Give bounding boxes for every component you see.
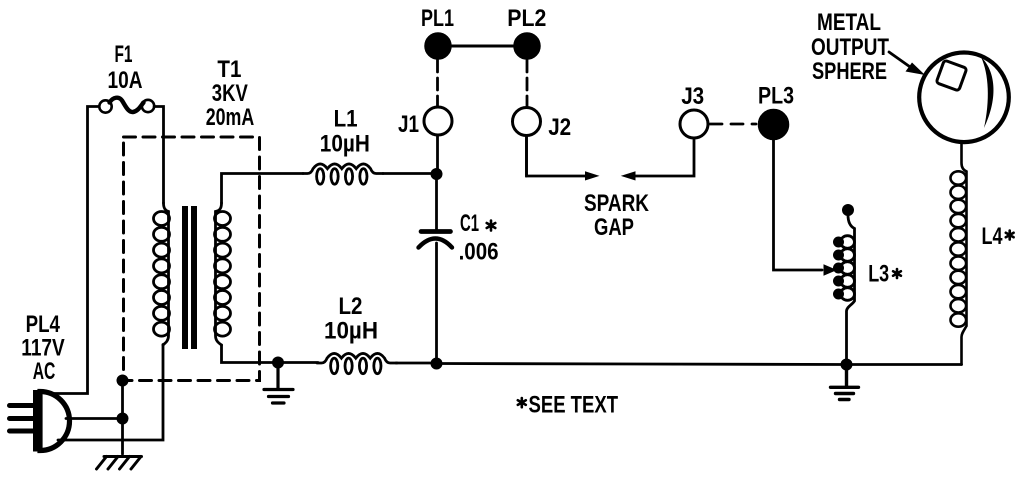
earth ground below secondary [264,363,293,404]
svg-text:10µH: 10µH [324,318,378,345]
svg-text:10µH: 10µH [320,131,370,158]
spark gap right electrode arrowhead [621,171,636,180]
wire plug middle prong to ground node [66,417,123,420]
metal output sphere [919,53,1009,143]
svg-text:L2: L2 [339,293,363,320]
svg-text:PL3: PL3 [758,83,794,110]
tap selector arrowhead [824,264,838,276]
L3 tap dots [833,237,844,300]
wire plug top to fuse F1 left [52,107,100,394]
dashed patch cord PL1 to J1 [436,60,439,106]
plug PL3 [759,110,789,140]
svg-text:AC: AC [33,358,56,385]
wire primary bottom to plug bottom [58,345,163,441]
wire L1 to node A [383,172,437,175]
plug PL1 [425,33,451,59]
jack J3 [680,110,708,138]
jack J2 [513,108,541,177]
svg-text:PL2: PL2 [507,5,546,32]
svg-text:SEE TEXT: SEE TEXT [529,391,619,418]
wire J2 to spark gap [527,136,587,177]
svg-text:J1: J1 [398,111,419,138]
svg-text:L3: L3 [868,261,889,288]
junction dot shield corner [117,375,129,387]
transformer T1 shield (dashed box) [124,137,260,381]
capacitor C1 [419,174,453,364]
label SPARK GAP [584,190,650,241]
plug PL2 [514,33,540,59]
wire ground node to L2 [278,361,318,364]
wire spark gap to J3 [634,138,694,176]
SEE TEXT asterisk star [518,398,526,407]
svg-text:SPHERE: SPHERE [812,58,887,85]
wire L2 to C1 bottom node [396,362,437,365]
junction dot L3 bottom [841,359,853,371]
node A junction dot [431,168,443,180]
wire shield corner to chassis ground [121,381,124,455]
label PL4 117V AC [21,311,64,385]
svg-text:METAL: METAL [817,9,881,36]
svg-text:J3: J3 [681,83,704,110]
svg-text:3KV: 3KV [212,80,248,107]
transformer T1 core [185,206,194,349]
L4 asterisk star [1006,231,1014,240]
dashed patch cord J3 to PL3 [710,123,756,126]
transformer T1 secondary winding [215,203,231,345]
svg-text:F1: F1 [115,41,133,68]
inductor L2 [317,353,397,373]
inductor L4 [951,143,967,365]
svg-text:20mA: 20mA [206,104,255,131]
svg-text:L1: L1 [334,106,358,133]
earth ground below L3 [831,365,859,400]
fuse F1 [99,98,154,113]
svg-text:L4: L4 [982,223,1003,250]
C1 asterisk star [487,221,496,231]
bottom bus wire [437,364,962,365]
spark gap left electrode arrowhead [585,171,600,180]
svg-text:PL1: PL1 [421,5,454,32]
wire PL1 to PL2 [452,45,515,48]
wire secondary top to L1 [222,174,304,204]
jack J1 [424,107,452,174]
svg-text:.006: .006 [459,239,499,266]
label L2 10uH [324,293,378,345]
wire fuse F1 right to transformer primary top [154,107,163,204]
svg-text:10A: 10A [108,67,143,94]
wire secondary bottom to ground node [222,345,279,363]
junction dot C1 bottom [431,358,443,370]
svg-text:GAP: GAP [594,214,634,241]
inductor L3 [841,204,855,365]
dashed patch cord PL2 to J2 [526,60,529,107]
inductor L1 [303,164,383,184]
label F1 10A [108,41,143,94]
svg-text:C1: C1 [460,210,479,237]
svg-text:J2: J2 [548,114,571,141]
pointer arrow to sphere [889,52,925,75]
L3 asterisk star [893,269,901,278]
plug PL4 [10,390,70,452]
svg-text:OUTPUT: OUTPUT [811,34,889,61]
label METAL OUTPUT SPHERE [811,9,889,85]
chassis ground below plug [97,457,142,470]
label L1 10uH [320,106,370,158]
svg-text:SPARK: SPARK [584,190,650,217]
svg-text:T1: T1 [217,56,241,83]
junction dot secondary ground [272,357,284,369]
wire PL3 to L3 tap selector [774,140,823,270]
junction dot plug middle prong [117,413,129,425]
label C1* .006 [459,210,499,266]
label T1 3KV 20mA [206,56,255,131]
transformer T1 primary winding [154,203,170,345]
